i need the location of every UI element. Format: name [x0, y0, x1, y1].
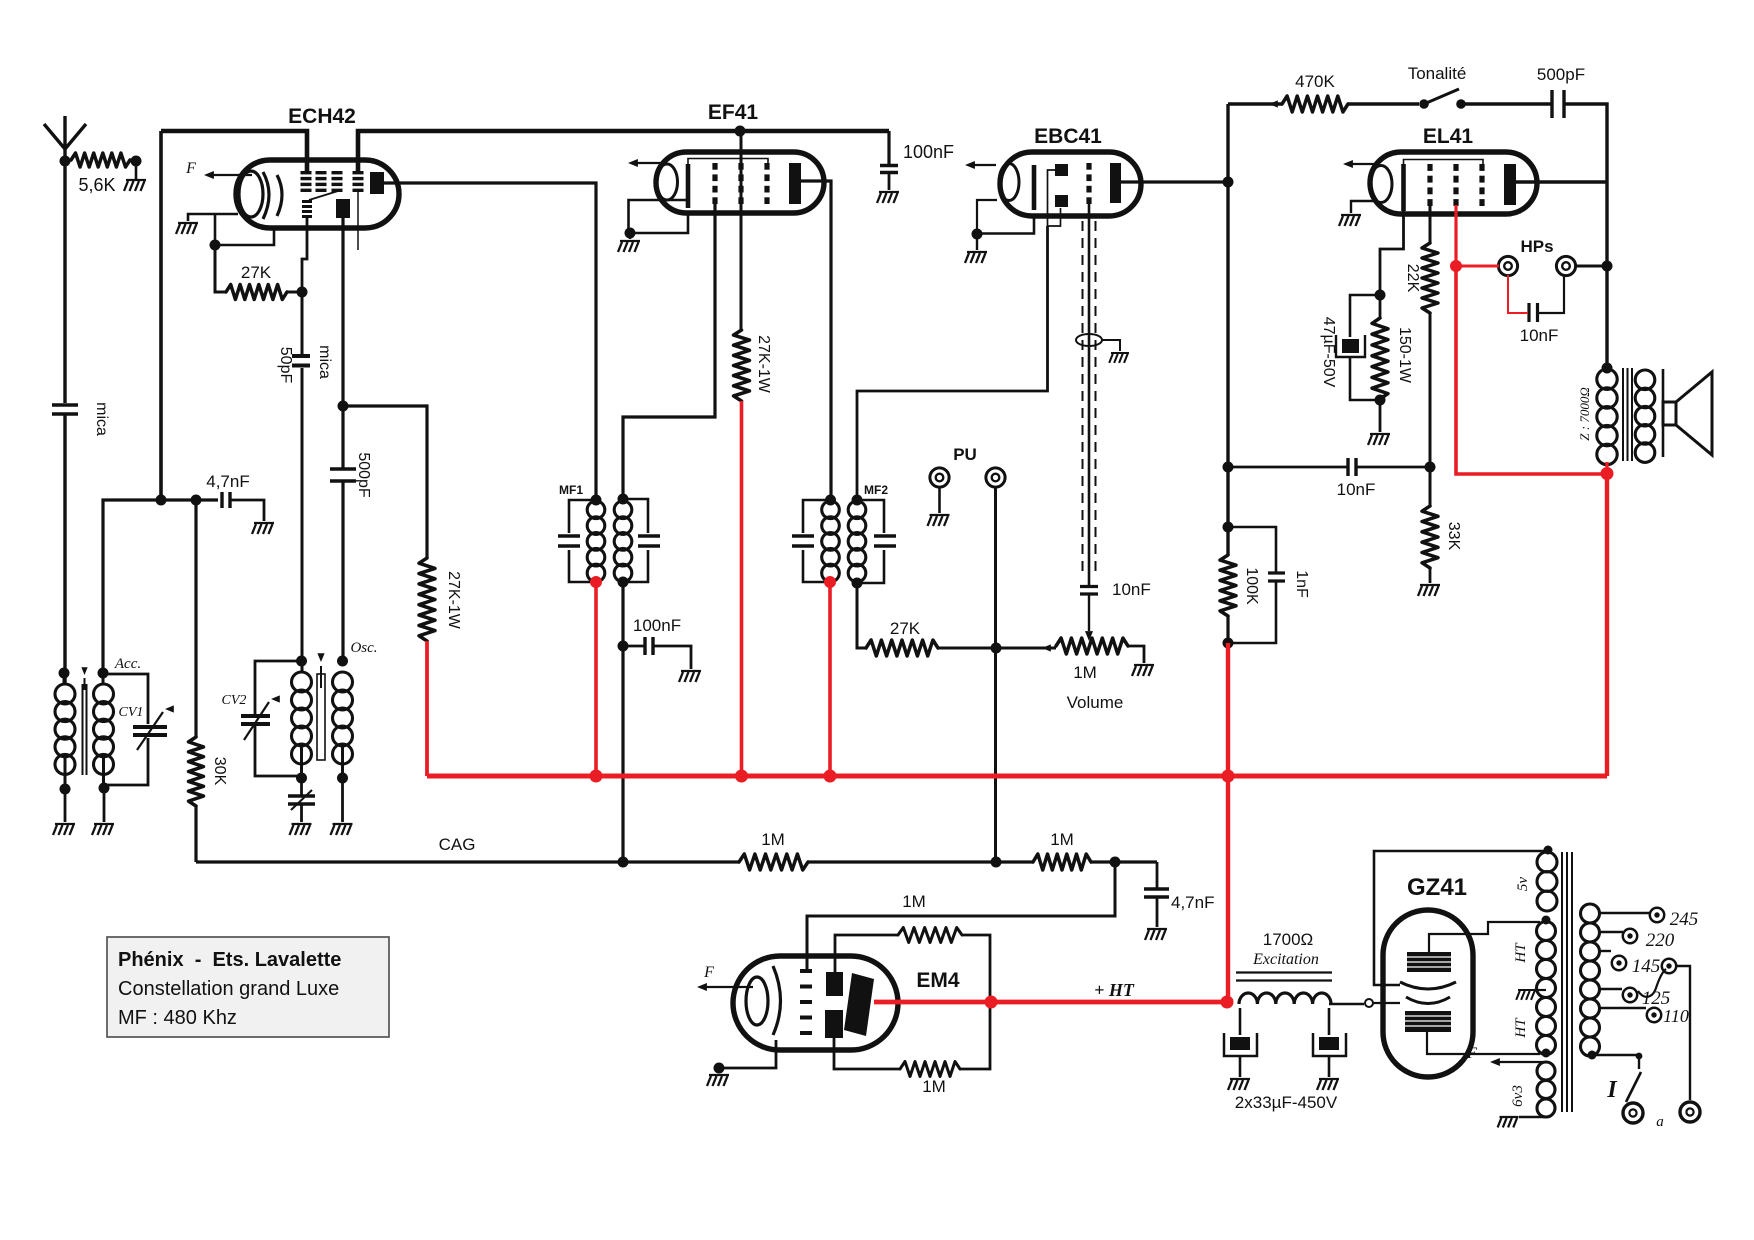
wire top feed right [358, 131, 889, 172]
tube EM4 cathode arc [773, 966, 781, 1035]
ground antenna resistor [135, 161, 138, 179]
tube EBC41 diode plate 1 [1055, 164, 1068, 176]
core output transformer [1623, 368, 1632, 461]
wire top feed left [161, 131, 307, 173]
tube EF41 base ellipse [657, 164, 678, 200]
wire hexode anode down [341, 218, 344, 406]
svg-text:F: F [185, 160, 196, 177]
tube EF41 grid g2 column [738, 163, 743, 170]
tube ECH42 grid g5 column [353, 171, 364, 174]
tube EBC41 grid column [1086, 163, 1091, 170]
tube EM4 envelope [733, 956, 898, 1050]
node HT top [1542, 916, 1551, 925]
svg-text:Z : 7000Ω: Z : 7000Ω [1577, 387, 1592, 440]
capacitor CV2 frame [255, 661, 301, 776]
tube GZ41 filament [1400, 982, 1456, 989]
tube EF41 cathode bar [686, 164, 691, 208]
node red MF1 [590, 576, 602, 588]
tube ECH42 envelope [236, 160, 399, 228]
coil MF2 primary [822, 501, 840, 519]
wire Acc secondary to AVC row [103, 500, 218, 673]
capacitor 500pF tone [1552, 90, 1564, 118]
tube EL41 base ellipse [1370, 166, 1392, 203]
capacitor 33uF left [1239, 1008, 1242, 1035]
tap 145 [1599, 950, 1611, 952]
svg-text:EL41: EL41 [1423, 125, 1474, 148]
coil Acc primary [55, 684, 75, 704]
wire shielded lead screen [1082, 221, 1084, 576]
ground 6V3 bottom [1519, 1116, 1546, 1118]
wire shielded lead core [1088, 203, 1091, 586]
svg-text:1M: 1M [761, 830, 785, 849]
capacitor 500pF [341, 406, 344, 469]
capacitor 4,7nF AVC [222, 492, 230, 508]
switch I mains [1626, 1072, 1641, 1102]
coil MF1 primary [587, 501, 605, 519]
svg-text:PU: PU [953, 445, 977, 464]
transformer output secondary [1635, 370, 1655, 390]
tube ECH42 internal link [309, 191, 338, 200]
tube EL41 cathode bar [1401, 164, 1406, 211]
svg-text:145: 145 [1632, 956, 1661, 977]
winding 5V [1537, 852, 1557, 872]
capacitor MF2 primary cap [803, 500, 831, 582]
svg-text:6v3: 6v3 [1510, 1085, 1526, 1107]
node 10nF left [1223, 462, 1234, 473]
resistor 100K [1220, 555, 1236, 616]
coil Osc secondary [333, 672, 353, 692]
node Acc primary top [59, 668, 70, 679]
wire EM4 cathode [719, 1040, 776, 1068]
svg-text:1nF: 1nF [1293, 570, 1310, 598]
capacitor CV2 [241, 716, 270, 724]
svg-text:Constellation grand Luxe: Constellation grand Luxe [118, 978, 339, 1000]
wire HT red MF1 [594, 582, 598, 776]
wire HPs red jumper [1508, 275, 1528, 313]
wire coupling vertical [1226, 104, 1229, 555]
capacitor 47uF-50V [1350, 295, 1380, 337]
node MF2 secondary bottom [852, 578, 863, 589]
resistor 27K grid leak [215, 245, 226, 292]
tube EF41 anode plate [789, 163, 801, 204]
tube EBC41 cathode bar [1032, 165, 1037, 210]
svg-text:27K: 27K [241, 263, 272, 282]
capacitor CV1 [133, 727, 167, 735]
wire EL41 g1 down [1429, 205, 1432, 243]
svg-text:mica: mica [316, 345, 333, 379]
voltage selector plug [1662, 959, 1676, 973]
resistor 1M EM4 bottom [834, 1038, 900, 1069]
svg-text:27K: 27K [890, 619, 921, 638]
resistor 1M CAG 2 [1033, 854, 1091, 870]
wire 22K to 10nF node [1429, 313, 1432, 467]
coil MF1 secondary [614, 501, 632, 519]
svg-text:Tonalité: Tonalité [1408, 64, 1467, 83]
capacitor 10nF HPs [1529, 303, 1538, 322]
tube EL41 grid g2 column [1453, 164, 1458, 171]
node EBC41 cathode ground [972, 229, 983, 240]
antenna [44, 116, 86, 161]
node red bus coupling [1222, 770, 1235, 783]
wire antenna down [63, 161, 66, 403]
wire HT red bus [425, 641, 429, 776]
resistor 30K [194, 500, 197, 737]
wire HT red coupling [1226, 643, 1230, 1003]
tube ECH42 grid g4 column [301, 171, 312, 174]
resistor 27K-1W EF41 screen [734, 330, 750, 401]
tube GZ41 envelope [1383, 910, 1473, 1077]
ground EL41 cathode [1379, 400, 1382, 432]
node 27K output [297, 287, 308, 298]
tube EM4 electrode 2 [825, 1010, 843, 1038]
tube GZ41 anode 1 [1407, 952, 1451, 972]
svg-text:Phénix - Ets. Lavalette: Phénix - Ets. Lavalette [118, 949, 341, 971]
tube EL41 grid g1 column [1427, 164, 1432, 171]
wire ECH42 cathode ground [188, 214, 238, 221]
svg-text:30K: 30K [211, 757, 228, 786]
speaker [1662, 369, 1665, 457]
svg-text:33K: 33K [1445, 522, 1462, 551]
tube EM4 target [844, 973, 874, 1036]
coil Osc primary [292, 672, 312, 692]
svg-text:HT: HT [1513, 942, 1529, 964]
terminal HPs left [1498, 256, 1517, 275]
svg-text:Osc.: Osc. [350, 640, 377, 656]
svg-text:1M: 1M [922, 1077, 946, 1096]
terminal mains left [1623, 1103, 1643, 1123]
capacitor 10nF detector [1080, 587, 1098, 595]
wire EBC41 anode [1121, 180, 1228, 183]
node red bus MF2 [824, 770, 837, 783]
svg-text:100nF: 100nF [903, 142, 954, 162]
node osc secondary top [337, 656, 348, 667]
node red MF2 [824, 576, 836, 588]
wire EF41 shield ground [629, 200, 688, 233]
node CAG MF1 tap [618, 857, 629, 868]
tap 125 [1599, 988, 1622, 990]
wire EL41 anode [1516, 180, 1607, 183]
terminal HPs right [1556, 256, 1575, 275]
svg-text:27K-1W: 27K-1W [445, 571, 462, 630]
wire CAG to EM4 grid [807, 862, 1115, 972]
svg-text:a: a [1656, 1114, 1664, 1130]
terminal mains right [1680, 1102, 1700, 1122]
wire EBC41 cathode [977, 216, 1034, 234]
node HT bottom [1542, 1049, 1551, 1058]
node MF1 secondary bottom [618, 577, 629, 588]
tube EF41 arrow [631, 162, 662, 164]
svg-text:47µF-50V: 47µF-50V [1320, 317, 1337, 388]
wire HT red EF41 screen [740, 401, 744, 776]
wire ECH42 anode to MF1 [384, 183, 596, 501]
node AVC row left [156, 495, 167, 506]
svg-text:10nF: 10nF [1520, 326, 1559, 345]
node 10nF right [1425, 462, 1436, 473]
tube EF41 grid g3 column [764, 163, 769, 170]
resistor 470K tone [1228, 102, 1282, 105]
tube ECH42 anode plate [370, 172, 384, 194]
wire CAG mid [808, 860, 1033, 863]
svg-text:5,6K: 5,6K [78, 175, 115, 195]
tube EF41 internal g3 link [688, 159, 768, 167]
svg-text:150-1W: 150-1W [1396, 327, 1413, 384]
node MF2 secondary top [852, 495, 863, 506]
wire EF41 anode to MF2 [801, 181, 831, 501]
svg-text:1M: 1M [1073, 663, 1097, 682]
node MF1 primary top [591, 495, 602, 506]
tube EL41 anode plate [1504, 164, 1516, 205]
tube EF41 envelope [656, 152, 824, 213]
info box [107, 937, 389, 1037]
svg-text:CV2: CV2 [222, 693, 247, 708]
wire GZ41 anode1 to HT top [1429, 922, 1540, 952]
svg-text:EBC41: EBC41 [1034, 125, 1102, 148]
svg-text:110: 110 [1663, 1006, 1689, 1026]
tube GZ41 anode 2 [1405, 1011, 1451, 1032]
svg-text:Excitation: Excitation [1252, 951, 1319, 968]
tube EL41 arrow [1346, 163, 1378, 165]
capacitor MF1 primary cap [569, 500, 596, 582]
node red EL41 grid [1450, 260, 1462, 272]
capacitor 10nF screen [1228, 466, 1347, 469]
svg-text:1M: 1M [902, 892, 926, 911]
svg-text:100K: 100K [1243, 567, 1260, 605]
node volume junction [991, 643, 1002, 654]
svg-text:CAG: CAG [439, 835, 476, 854]
wire HT red output [1605, 474, 1609, 777]
node osc primary top [296, 656, 307, 667]
terminal PU left [930, 468, 949, 487]
tube EM4 grid column [800, 969, 812, 973]
wire GZ41 anode2 to HT bottom [1427, 1032, 1540, 1054]
node 500pF junction [338, 401, 349, 412]
node CAG PU tap [991, 857, 1002, 868]
resistor 27K-1W osc [419, 558, 435, 641]
svg-text:470K: 470K [1295, 72, 1335, 91]
ground Acc secondary [103, 788, 106, 822]
tube EBC41 base ellipse [999, 164, 1019, 201]
wire HT red speaker link [1605, 462, 1608, 474]
capacitor CV1 frame [103, 674, 148, 785]
wire grid pin [302, 216, 307, 292]
resistor 33K [1429, 467, 1432, 506]
svg-text:4,7nF: 4,7nF [206, 472, 249, 491]
svg-text:MF1: MF1 [559, 483, 583, 497]
svg-text:+ HT: + HT [1094, 980, 1135, 1000]
tube EBC41 anode plate [1110, 163, 1121, 203]
capacitor 100nF decoupling [887, 131, 890, 165]
node output transformer top [1602, 363, 1613, 374]
core Osc transformer [317, 674, 325, 760]
node antenna junction [60, 156, 71, 167]
capacitor 33uF right [1328, 1008, 1331, 1035]
svg-text:MF : 480 Khz: MF : 480 Khz [118, 1007, 237, 1029]
tap 245 [1599, 912, 1650, 914]
node MF2 primary top [825, 495, 836, 506]
node 100K top [1223, 522, 1234, 533]
ground EF41 cathode [629, 233, 631, 239]
tube ECH42 grid g2 column [316, 171, 327, 174]
svg-text:50pF: 50pF [277, 347, 294, 384]
terminal PU right [986, 468, 1005, 487]
capacitor 50pF mica [301, 292, 304, 355]
node red +HT corner [1221, 996, 1234, 1009]
coil Acc secondary [94, 684, 114, 704]
svg-text:2x33µF-450V: 2x33µF-450V [1235, 1093, 1338, 1112]
coil excitation 1700 [1239, 993, 1331, 1004]
resistor 1M CAG 1 [739, 854, 808, 870]
node CAG right junction [1110, 857, 1121, 868]
svg-text:I: I [1606, 1077, 1618, 1103]
node 100nF AVC junction [618, 641, 629, 652]
svg-text:EM4: EM4 [916, 969, 960, 992]
svg-text:1700Ω: 1700Ω [1263, 930, 1314, 949]
node AVC row 30K tap [191, 495, 202, 506]
tube EM4 electrode 1 [826, 972, 843, 996]
tube ECH42 base ellipse [239, 171, 263, 217]
svg-text:100nF: 100nF [633, 616, 681, 635]
tube EF41 grid g1 column [712, 163, 717, 170]
wire output vertical [1605, 182, 1608, 368]
ground HT center tap [1534, 989, 1546, 991]
potentiometer 1M volume [1042, 644, 1051, 651]
svg-text:5v: 5v [1515, 877, 1531, 892]
ground EL41 heater [1351, 201, 1376, 213]
svg-text:MF2: MF2 [864, 483, 888, 497]
capacitor 1nF [1228, 527, 1276, 572]
capacitor MF1 secondary cap [623, 499, 648, 582]
tube EL41 internal g3 link [1404, 160, 1484, 167]
terminal GZ41 cathode [1365, 999, 1373, 1007]
wire EL41 cathode [1380, 211, 1404, 295]
node EF41 screen top [735, 126, 746, 137]
wire HT red MF2 [828, 582, 832, 776]
tube EL41 envelope [1370, 152, 1537, 214]
resistor 150-1W [1379, 295, 1382, 318]
resistor 1M EM4 top [835, 935, 898, 972]
node cathode R bottom [1375, 395, 1386, 406]
winding HT [1537, 922, 1556, 941]
node red bus MF1 [590, 770, 603, 783]
ground EBC41 cathode [976, 234, 978, 250]
node EF41 cathode ground [625, 228, 636, 239]
wire MF1 secondary to EF41 grid [623, 203, 715, 499]
node Acc secondary top [98, 668, 109, 679]
wire left trunk vertical [159, 131, 163, 500]
node red output bottom [1601, 467, 1614, 480]
tap 220 [1599, 931, 1623, 933]
wire mains secondary bottom [1588, 1051, 1597, 1060]
coil MF2 secondary [848, 501, 866, 519]
tube EL41 grid g3 column [1479, 164, 1484, 171]
resistor 27K detector [857, 583, 866, 648]
ground osc secondary [341, 778, 344, 822]
svg-text:500pF: 500pF [1537, 65, 1585, 84]
node MF1 secondary top [618, 494, 629, 505]
svg-text:220: 220 [1646, 930, 1675, 951]
tap 110 [1599, 1007, 1646, 1009]
capacitor mica antenna [52, 405, 78, 414]
wire MF1 secondary bottom down [621, 582, 624, 862]
svg-text:10nF: 10nF [1337, 480, 1376, 499]
core power transformer [1562, 852, 1572, 1112]
node 100K bottom [1223, 638, 1234, 649]
node red EM4 anode [985, 996, 998, 1009]
capacitor osc padder [300, 778, 303, 795]
tube EM4 base ellipse [746, 977, 768, 1025]
node cathode R top [1375, 290, 1386, 301]
wire CAG [196, 860, 739, 863]
svg-text:HT: HT [1513, 1017, 1529, 1039]
wire GZ41 filament to 5V [1374, 851, 1544, 985]
svg-text:Volume: Volume [1067, 693, 1124, 712]
node 5V top [1544, 846, 1553, 855]
svg-text:22K: 22K [1404, 264, 1421, 293]
svg-text:CV1: CV1 [119, 705, 144, 720]
tube ECH42 grid g3 column [332, 171, 343, 174]
node Acc primary bottom [60, 784, 71, 795]
node osc secondary bottom [337, 773, 348, 784]
wire selector to mains terminal [1676, 966, 1690, 1100]
tube ECH42 hexode anode [336, 199, 350, 218]
node Acc secondary bottom [99, 783, 110, 794]
resistor 5,6K antenna [71, 153, 130, 167]
svg-text:10nF: 10nF [1112, 580, 1151, 599]
resistor 22K [1422, 243, 1438, 313]
svg-text:500pF: 500pF [355, 452, 372, 498]
node ECH42 cathode [210, 240, 221, 251]
switch Tonalite [1419, 99, 1429, 109]
transformer output primary [1597, 369, 1617, 389]
svg-text:27K-1W: 27K-1W [755, 335, 772, 394]
svg-text:ECH42: ECH42 [288, 105, 356, 128]
tube EBC41 arrow [968, 164, 996, 166]
svg-text:F: F [1466, 1045, 1477, 1062]
svg-text:1M: 1M [1050, 830, 1074, 849]
svg-text:HPs: HPs [1520, 237, 1553, 256]
tube EBC41 diode plate 2 [1055, 195, 1068, 207]
shield ring [1076, 334, 1102, 346]
svg-text:mica: mica [93, 402, 110, 436]
wire CAG right [1091, 860, 1157, 863]
node 5,6K right [131, 156, 142, 167]
wire +HT red [874, 1000, 1229, 1005]
svg-text:GZ41: GZ41 [1407, 874, 1467, 901]
svg-text:F: F [703, 964, 714, 981]
winding 6V3 [1537, 1062, 1555, 1080]
node red bus EF41 [735, 770, 748, 783]
svg-text:245: 245 [1670, 909, 1699, 930]
svg-text:Acc.: Acc. [114, 656, 141, 672]
wire MF2 secondary to EBC41 diode [857, 226, 1048, 500]
wire 30K to CAG [194, 806, 197, 862]
winding mains [1581, 904, 1600, 923]
node EM4 cathode ground [714, 1063, 725, 1074]
wire EF41 screen-grid line [740, 131, 743, 330]
wire EL41 grid red [1454, 205, 1457, 266]
capacitor MF2 secondary cap [857, 500, 884, 583]
tube ECH42 grid support line [357, 190, 359, 250]
wire to 27K-1W osc [343, 406, 427, 558]
node HPs right junction [1602, 261, 1613, 272]
ground Acc primary [64, 789, 67, 822]
core excitation [1236, 973, 1332, 981]
capacitor 4,7nF CAG [1156, 862, 1159, 889]
core Acc transformer [83, 684, 87, 775]
svg-text:EF41: EF41 [708, 101, 759, 124]
tube ECH42 triode grid column [302, 200, 312, 203]
tube ECH42 cathode arcs [263, 172, 269, 219]
